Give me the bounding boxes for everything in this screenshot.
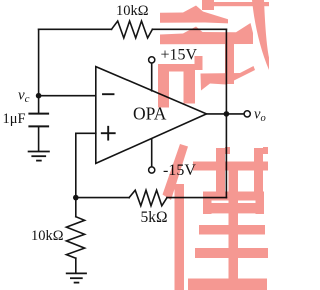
watermark char shi: thin top bar	[210, 2, 269, 6]
watermark char shi: bottom sweep with taper tip	[201, 66, 256, 91]
watermark char shi: mouth box right vertical top flag	[195, 56, 203, 70]
watermark char jin: box bottom bar	[203, 203, 264, 213]
watermark char jin: bar below box	[199, 225, 265, 235]
watermark char shi: mouth box top bar	[158, 64, 195, 72]
capacitor C1 1uF plates	[29, 113, 48, 115]
watermark char jin: box left vertical	[203, 192, 212, 215]
watermark char shi: yan bar 2 merged with long bar, right upflick	[160, 23, 253, 44]
watermark char jin: middle vertical	[229, 170, 239, 282]
wire vc to capacitor C1 top plate	[38, 96, 40, 113]
wire top-left vertical from feedback net to node vc	[38, 29, 40, 95]
watermark char jin: person radical vertical	[175, 184, 185, 290]
wire capacitor C1 bottom plate to ground	[38, 127, 40, 150]
svg-text:5kΩ: 5kΩ	[141, 209, 168, 226]
watermark char shi: mouth box right vertical	[184, 64, 196, 104]
watermark char jin: top left vertical with flag	[216, 147, 230, 192]
ground under capacitor C1	[29, 151, 49, 153]
terminal -15V open circle	[149, 167, 155, 173]
terminal +15V open circle	[149, 57, 155, 63]
watermark char jin: top right vertical with flag	[254, 147, 268, 192]
op-amp U1 triangle	[96, 67, 207, 164]
watermark char jin: second lower bar	[195, 248, 268, 258]
svg-text:1μF: 1μF	[3, 111, 26, 127]
wire top horizontal left to R1	[39, 28, 112, 30]
resistor R2 5k zigzag	[129, 190, 167, 206]
wire bottom net left segment	[76, 197, 129, 199]
wire +15V supply stem	[151, 63, 153, 91]
node bottom junction dot	[73, 195, 79, 201]
watermark char jin: box right vertical	[256, 192, 265, 215]
wire top horizontal right from R1 to right rail	[152, 28, 226, 30]
watermark char jin: bottom bar	[188, 279, 267, 290]
op-amp non-inverting input marker plus	[102, 132, 115, 134]
watermark char shi: dot stroke slanting out right edge	[252, 0, 269, 70]
node output junction dot	[224, 111, 230, 117]
terminal vo open circle	[244, 111, 250, 117]
svg-text:+15V: +15V	[161, 47, 198, 64]
watermark char jin: box top bar	[203, 192, 264, 201]
watermark char jin: person radical diagonal	[163, 144, 189, 200]
wire output from op-amp apex to terminal	[207, 113, 244, 115]
op-amp inverting input marker minus	[103, 93, 114, 95]
ground under resistor R3	[67, 272, 86, 274]
wire R3 to ground	[75, 258, 77, 273]
svg-text:10kΩ: 10kΩ	[31, 228, 64, 244]
wire junction to R3	[75, 198, 77, 217]
wire bottom net right segment	[167, 197, 226, 199]
watermark char jin: top cross bar	[193, 162, 268, 171]
watermark red stamp overlay	[158, 0, 269, 290]
wire non-inverting input lead	[76, 133, 96, 197]
node vc junction dot	[36, 93, 42, 99]
resistor R1 10k feedback zigzag	[112, 21, 153, 38]
watermark char shi: top cut fragment	[202, 0, 214, 10]
svg-text:10kΩ: 10kΩ	[116, 3, 149, 19]
wire -15V supply stem	[151, 139, 153, 167]
resistor R3 10k vertical zigzag	[66, 217, 84, 259]
watermark char shi: lower vertical	[225, 41, 234, 84]
svg-text:vc: vc	[18, 88, 30, 106]
watermark char shi: mouth box left vertical	[158, 64, 169, 108]
wire right vertical rail to output node	[225, 29, 227, 197]
watermark char shi: yan radical bar 1 with flick	[160, 6, 228, 24]
wire node vc to inverting input	[39, 95, 96, 97]
svg-text:vo: vo	[254, 107, 266, 125]
